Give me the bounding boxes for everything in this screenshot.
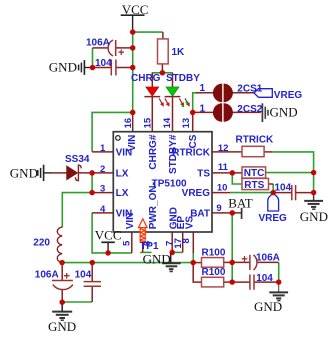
wire cap104 top-left stubs <box>93 67 111 69</box>
capacitor C 104 at pin10 <box>292 185 296 200</box>
resistor NTC box <box>242 167 266 178</box>
capacitor C bottom-left 104 <box>84 282 101 287</box>
capacitor C 106A mid-right <box>250 255 257 270</box>
wire 1K top stub <box>162 32 164 39</box>
wire 106A mid stubs <box>232 261 250 263</box>
ground symbol chip bottom <box>162 253 180 271</box>
wire NTC to right rail <box>266 172 314 174</box>
wire pin5 stub <box>131 232 133 253</box>
svg-text:TS: TS <box>197 168 210 179</box>
svg-text:VREG: VREG <box>259 213 288 224</box>
wire pin1 stub <box>92 151 113 153</box>
wire pin8 down <box>192 253 194 263</box>
wire RTRICK to right rail <box>273 152 314 193</box>
wire pin2 stub <box>79 172 113 174</box>
wire pin6 stub <box>142 232 144 252</box>
svg-text:11: 11 <box>218 162 229 173</box>
wire pin10 stub <box>212 192 230 194</box>
svg-text:CS: CS <box>188 134 199 148</box>
wire CS1 stubs <box>196 92 214 94</box>
wire RTS to pin10 node <box>272 184 274 193</box>
svg-text:TP5100: TP5100 <box>152 178 187 189</box>
wire RTRICK right stub <box>264 151 273 153</box>
svg-text:14: 14 <box>162 117 173 128</box>
wire BAT column down <box>231 213 233 282</box>
svg-text:9: 9 <box>216 203 221 214</box>
wire ground rail bottom-left <box>62 262 193 264</box>
svg-text:106A: 106A <box>256 252 280 263</box>
resistor R100 bottom <box>202 277 224 287</box>
LED STDBY green <box>165 87 192 108</box>
resistor R 1K <box>158 39 169 64</box>
wire LED2 anode stub <box>172 73 174 87</box>
svg-text:106A: 106A <box>35 270 59 281</box>
capacitor C 104 mid-right <box>250 275 254 290</box>
svg-text:106A: 106A <box>86 38 110 49</box>
svg-text:BAT: BAT <box>228 196 253 211</box>
net flag VREG right of CS1 <box>254 89 272 98</box>
wire LED anode bar <box>152 72 173 74</box>
capacitor C top-left 104 <box>111 60 116 76</box>
wire 1K bottom stub <box>161 64 163 73</box>
wire VCC to 1K <box>133 31 163 33</box>
svg-text:R100: R100 <box>202 248 226 259</box>
chip pin numbers <box>100 117 229 248</box>
svg-text:1K: 1K <box>172 47 186 58</box>
svg-text:GND: GND <box>254 299 282 314</box>
ground symbol bottom-right <box>269 282 288 301</box>
wire pin8 stub <box>192 232 194 253</box>
svg-text:SS34: SS34 <box>65 154 90 165</box>
wire TP1 stub <box>140 251 151 253</box>
plus 106A top-left <box>119 50 125 56</box>
wire cap left column <box>92 48 94 68</box>
svg-text:R100: R100 <box>202 267 226 278</box>
svg-text:GND: GND <box>300 209 328 224</box>
inductor L 220 <box>57 227 62 263</box>
svg-text:16: 16 <box>123 118 134 129</box>
resistor RTS box <box>242 178 269 189</box>
svg-text:GND: GND <box>49 60 77 75</box>
svg-text:RTS: RTS <box>244 180 264 191</box>
pin1 indicator circle <box>116 136 121 141</box>
ground symbol right of CS2 <box>262 103 268 122</box>
svg-text:VIN: VIN <box>127 135 138 152</box>
wire CS2 stubs <box>193 111 214 113</box>
wire inductor bottom caps stubs <box>61 263 63 281</box>
ground symbol top-left ports <box>79 60 93 75</box>
wire pin9 stub <box>212 212 241 214</box>
plus bottom-left 106A <box>64 273 70 279</box>
svg-text:2: 2 <box>100 164 105 175</box>
svg-text:6: 6 <box>142 241 153 246</box>
wire VCC column <box>132 32 134 112</box>
svg-text:2CS2: 2CS2 <box>237 104 262 115</box>
svg-text:1: 1 <box>200 83 206 94</box>
resistor RTRICK <box>242 146 264 156</box>
svg-text:15: 15 <box>142 117 153 128</box>
net flag VREG at pin10 <box>268 193 279 211</box>
wire RTS right stub <box>269 183 274 185</box>
ground symbol bottom-left <box>52 302 72 320</box>
wire pin3 stub <box>92 192 113 194</box>
jumper CS2 <box>213 103 233 122</box>
wire pin11 to RTS <box>232 173 242 184</box>
svg-text:1: 1 <box>100 143 106 154</box>
wire R100a stubs <box>193 262 201 264</box>
wire pin14 stub <box>172 97 174 132</box>
svg-text:GND: GND <box>10 165 38 180</box>
test point TP1 arrow <box>138 219 147 242</box>
svg-text:VIN: VIN <box>125 213 136 230</box>
wire LED1 anode stub <box>151 73 153 87</box>
svg-text:10: 10 <box>217 183 228 194</box>
svg-text:4: 4 <box>100 204 106 215</box>
wire LX pins 2-3 <box>91 173 93 193</box>
svg-text:VREG: VREG <box>182 188 211 199</box>
wire pin7 stub <box>171 232 173 252</box>
wire pin7 to pin17 <box>172 251 183 253</box>
power port VCC top <box>121 15 145 32</box>
wire pin3 to inductor <box>62 193 92 228</box>
svg-text:GND: GND <box>270 104 298 119</box>
wire pin13 up to CS1 <box>193 93 198 113</box>
ground symbol at SS34 <box>38 165 52 181</box>
svg-text:LX: LX <box>116 188 129 199</box>
svg-text:8: 8 <box>181 238 192 243</box>
svg-text:CHRG#: CHRG# <box>148 134 159 169</box>
wire 106A right vertical <box>278 262 280 282</box>
svg-text:GND: GND <box>48 319 76 334</box>
capacitor C bottom-left 106A <box>52 281 73 290</box>
wire VCC to pin1 <box>92 112 133 151</box>
power port VCC near chip <box>101 242 114 253</box>
svg-text:VREG: VREG <box>274 90 303 101</box>
svg-text:VCC: VCC <box>95 228 122 243</box>
wire 104 pin10 stubs <box>273 192 291 194</box>
resistor R100 top <box>202 258 224 268</box>
svg-text:VCC: VCC <box>122 2 149 17</box>
svg-text:STDBY#: STDBY# <box>168 134 179 174</box>
svg-text:104: 104 <box>256 273 273 284</box>
jumper CS1 <box>213 84 233 103</box>
wire group <box>62 32 314 302</box>
component pin stubs <box>52 32 314 302</box>
wire cap106A top-left stubs <box>93 47 109 49</box>
svg-text:STDBY: STDBY <box>166 73 200 84</box>
wire pin11 stub <box>212 172 242 174</box>
svg-text:2CS1: 2CS1 <box>237 83 262 94</box>
wire diode anode stub <box>52 172 67 174</box>
plus 106A mid-right <box>242 256 248 262</box>
capacitor C top-left 106A <box>108 40 116 56</box>
wire R100b right stub <box>224 281 233 283</box>
svg-text:3: 3 <box>100 184 105 195</box>
wire pin10 to node <box>230 192 273 194</box>
svg-text:VS: VS <box>184 216 195 230</box>
chip pin names <box>116 134 211 229</box>
svg-text:104: 104 <box>275 183 292 194</box>
svg-text:CHRG: CHRG <box>131 73 161 84</box>
wire 104 bottom to GND <box>62 301 92 303</box>
svg-text:13: 13 <box>181 118 192 129</box>
svg-text:12: 12 <box>218 143 229 154</box>
svg-text:5: 5 <box>122 240 133 246</box>
svg-text:220: 220 <box>33 238 50 249</box>
svg-text:1: 1 <box>200 104 206 115</box>
svg-text:NTC: NTC <box>244 168 265 179</box>
diode SS34 <box>67 165 81 181</box>
IC U1 TP5100 body <box>113 132 212 232</box>
ground symbol right rail <box>304 193 323 210</box>
wire pin12 stub <box>212 151 242 153</box>
wire pin4 stub <box>92 212 113 214</box>
wire pin4 to VCC to pin5 <box>92 213 132 253</box>
svg-text:GND: GND <box>143 251 171 266</box>
wire pin17 stub <box>182 232 184 252</box>
wire R100b left <box>193 263 201 283</box>
svg-text:104: 104 <box>95 58 112 69</box>
wire pin15 stub <box>151 97 153 132</box>
LED CHRG red <box>144 87 171 108</box>
wire pin13 stub <box>192 112 194 131</box>
svg-text:LX: LX <box>116 168 129 179</box>
wire 104 mid stubs <box>232 281 250 283</box>
wire pin16 stub <box>132 112 134 131</box>
power port BAT bar <box>241 208 243 219</box>
svg-text:RTRICK: RTRICK <box>236 135 275 146</box>
svg-text:104: 104 <box>75 270 92 281</box>
